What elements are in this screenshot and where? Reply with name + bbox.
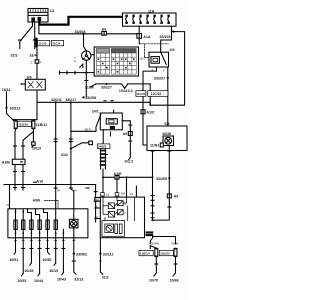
relay 2/4 right pin down, node 33/207 xyxy=(167,67,169,136)
pin 7 xyxy=(62,229,64,272)
lamp chains xyxy=(9,209,78,283)
svg-text:11C/3: 11C/3 xyxy=(38,42,46,46)
label 11C/4 xyxy=(51,40,63,45)
clock down wire xyxy=(85,60,87,96)
svg-text:10/51: 10/51 xyxy=(9,258,18,262)
fuse 11B/11 xyxy=(32,120,47,130)
wire fuse to relay 2/4, node 33/103 xyxy=(161,26,172,53)
labels above module xyxy=(101,193,105,196)
svg-text:A9: A9 xyxy=(123,132,128,136)
11B fuse rail xyxy=(13,119,37,121)
svg-text:A1/C: A1/C xyxy=(146,111,155,115)
svg-text:31/3: 31/3 xyxy=(11,54,18,58)
S/1 pins xyxy=(151,150,154,152)
svg-text:33/111: 33/111 xyxy=(103,252,114,256)
svg-text:SB-R: SB-R xyxy=(85,127,91,131)
wire right bypass from fuse down right edge xyxy=(150,32,185,106)
switch glyph xyxy=(80,64,83,67)
svg-text:30A: 30A xyxy=(121,192,126,196)
svg-text:31/4: 31/4 xyxy=(30,54,37,58)
internal relay coils xyxy=(108,203,114,209)
branch hook to ground 31/2 xyxy=(70,148,72,150)
battery 1/1 xyxy=(28,9,48,23)
svg-text:A1/B: A1/B xyxy=(2,161,11,165)
diagonal to fuse 11B/10 xyxy=(7,114,15,122)
svg-text:A9/6: A9/6 xyxy=(33,199,41,203)
wire fuse to A1A xyxy=(138,26,140,33)
wire 3/9 down and right xyxy=(37,90,150,105)
fuse 11B/15 xyxy=(159,248,177,258)
long wire from 33/217 down xyxy=(70,103,72,184)
svg-text:11B/11: 11B/11 xyxy=(36,123,47,127)
svg-text:31/13: 31/13 xyxy=(74,278,83,282)
connector A9 xyxy=(123,132,133,137)
S/1 box xyxy=(147,122,187,150)
svg-text:GN-W: GN-W xyxy=(171,241,179,245)
dashed link A1A to relay 2/4 xyxy=(140,44,168,58)
wire 11B/15 to 10/66 xyxy=(173,258,176,277)
wire through 11C/22 down to bypass junction xyxy=(149,84,151,105)
relay 24/1 right pin to A9 and S/2:2 xyxy=(122,121,130,132)
lamp 2 xyxy=(22,209,24,220)
internal contacts xyxy=(117,201,123,206)
svg-text:A4: A4 xyxy=(102,28,107,32)
fuse ladder stack xyxy=(100,149,107,170)
svg-text:31/2: 31/2 xyxy=(61,153,68,157)
svg-text:10/52: 10/52 xyxy=(17,279,26,283)
svg-text:GN-BN: GN-BN xyxy=(151,241,159,245)
wire 33/227 xyxy=(96,83,122,85)
svg-text:11C/21: 11C/21 xyxy=(136,92,146,96)
lamp 4 xyxy=(36,209,40,220)
svg-text:10/50: 10/50 xyxy=(42,258,51,262)
svg-text:24/1: 24/1 xyxy=(92,110,99,114)
svg-text:4/8: 4/8 xyxy=(95,198,99,202)
node 33/208 xyxy=(82,96,84,98)
wire A1A down xyxy=(138,38,140,44)
bus A1/E xyxy=(103,176,153,178)
svg-text:10/66: 10/66 xyxy=(170,278,179,282)
label 11C/22 xyxy=(148,91,168,97)
bus A16 right corner down xyxy=(95,185,97,223)
wire SB-R from 33/217 wire to relay 24/1 arm xyxy=(71,127,96,131)
svg-text:33/211: 33/211 xyxy=(51,98,62,102)
bus A16 xyxy=(4,184,96,186)
left pin boxes xyxy=(95,198,101,202)
svg-text:10/114:2: 10/114:2 xyxy=(119,89,133,93)
node 33/217 xyxy=(70,101,72,103)
clock 16/35 xyxy=(82,51,91,60)
wire 11B/10 down to A1/B xyxy=(14,130,16,160)
wire stack down to A1/E line xyxy=(102,169,104,177)
connector A9 lower xyxy=(167,194,178,199)
connector A4 xyxy=(102,28,107,36)
relay 24/1 xyxy=(92,110,123,130)
node 33/211 xyxy=(55,101,57,103)
lamp 6 xyxy=(55,209,57,220)
relay 2/4 left pin down to A1/C xyxy=(143,67,157,110)
svg-text:11A: 11A xyxy=(148,9,155,13)
svg-text:33/205: 33/205 xyxy=(156,177,167,181)
svg-text:11B/10: 11B/10 xyxy=(18,122,28,126)
thick feed wire battery plus to fuse box 11A xyxy=(39,17,122,25)
svg-text:33/217: 33/217 xyxy=(65,98,76,102)
central locking module 10/114 xyxy=(95,197,145,238)
wire to ignition switch xyxy=(36,46,38,79)
svg-text:S/2:2: S/2:2 xyxy=(125,160,134,164)
clock to table xyxy=(91,54,94,56)
svg-text:10/19: 10/19 xyxy=(49,269,58,273)
svg-text:33/103: 33/103 xyxy=(160,35,171,39)
module bottom wire to 33/111 xyxy=(99,238,101,272)
split to fuses 11B/14 11B/15 xyxy=(150,236,152,244)
connector A1/C xyxy=(141,110,155,115)
svg-text:10/43: 10/43 xyxy=(57,277,66,281)
svg-text:A9: A9 xyxy=(174,194,179,198)
ignition switch 3/9 xyxy=(20,76,45,90)
wire battery minus to ground 31/4 xyxy=(34,22,36,49)
wire A1/C down to 11/N1 xyxy=(143,114,160,145)
wire 11B/14 to 10/70 xyxy=(154,258,157,277)
svg-text:11B/15: 11B/15 xyxy=(160,252,170,256)
svg-text:2/4: 2/4 xyxy=(170,48,175,52)
motor in box xyxy=(69,219,78,228)
svg-text:11/N1: 11/N1 xyxy=(150,143,159,147)
node 33/113 xyxy=(5,107,7,109)
motor sub box xyxy=(102,221,125,237)
black labels above tailgate fuses xyxy=(146,231,154,233)
relay 24/1 pins xyxy=(102,130,104,145)
stub wire left of clock xyxy=(60,72,95,74)
wires A1/E area down to module xyxy=(116,179,118,197)
connector strip A1/B xyxy=(2,159,25,164)
node 33/204 xyxy=(82,33,84,35)
long wire from 33/211 down xyxy=(55,103,57,184)
pin tick row below box xyxy=(14,240,75,242)
svg-text:11B/14: 11B/14 xyxy=(140,252,150,256)
svg-text:10/45: 10/45 xyxy=(24,269,33,273)
svg-text:A16: A16 xyxy=(37,180,44,184)
svg-text:33/207: 33/207 xyxy=(154,76,165,80)
fuse box 11A xyxy=(123,9,177,26)
wires A1/B down to bus A16 xyxy=(14,165,16,185)
wire lamp down, node 33/205 xyxy=(168,146,170,194)
node 33/502, ground 31/13 xyxy=(74,238,76,274)
wire 33/211 continues to lamp box xyxy=(55,185,57,209)
svg-text:33/208: 33/208 xyxy=(85,96,96,100)
wire 33/217 continues below bus to motor xyxy=(71,185,74,209)
svg-text:11C/4: 11C/4 xyxy=(52,42,60,46)
connector A1/E xyxy=(114,172,123,179)
wire battery minus to ground 31/3 xyxy=(20,22,33,49)
lamp 5 xyxy=(44,209,48,220)
fuse 11B/14 xyxy=(139,246,158,257)
svg-text:19/13: 19/13 xyxy=(32,147,41,151)
wire S/1 left pin down xyxy=(152,151,154,221)
lamp 3 xyxy=(28,209,32,220)
fuses in 11A xyxy=(125,15,169,24)
wire 33/204 to clock xyxy=(84,34,87,51)
svg-text:33/227: 33/227 xyxy=(101,85,112,89)
svg-text:31/2: 31/2 xyxy=(102,275,109,279)
riser to 11B fuse rail xyxy=(36,102,38,119)
svg-text:11C/22: 11C/22 xyxy=(151,92,162,96)
feed wire B horizontal to A1A column xyxy=(39,26,137,34)
svg-text:33/113: 33/113 xyxy=(10,107,21,111)
tick 86 xyxy=(85,80,88,82)
lamp 1 xyxy=(15,209,17,220)
label 11C/21 xyxy=(136,91,146,97)
wire 11B/11 to 19/13 xyxy=(32,132,34,142)
svg-text:33/502: 33/502 xyxy=(76,252,87,256)
svg-text:10/70: 10/70 xyxy=(149,278,158,282)
relay 2/4 xyxy=(149,48,175,67)
label 24B/2 xyxy=(97,144,110,149)
label 11C/3 xyxy=(38,40,50,45)
fuse 11B/10 xyxy=(13,120,31,130)
thick wire stub into 11C xyxy=(35,39,37,46)
svg-text:A1A: A1A xyxy=(143,35,151,39)
connector A1A xyxy=(137,34,151,39)
central connector table 11C xyxy=(94,47,138,76)
svg-text:10/44: 10/44 xyxy=(34,279,43,283)
internal wires xyxy=(103,197,108,206)
svg-text:1/1: 1/1 xyxy=(50,9,55,13)
wire 11B/11 diagonal down to A1/B xyxy=(23,130,33,160)
